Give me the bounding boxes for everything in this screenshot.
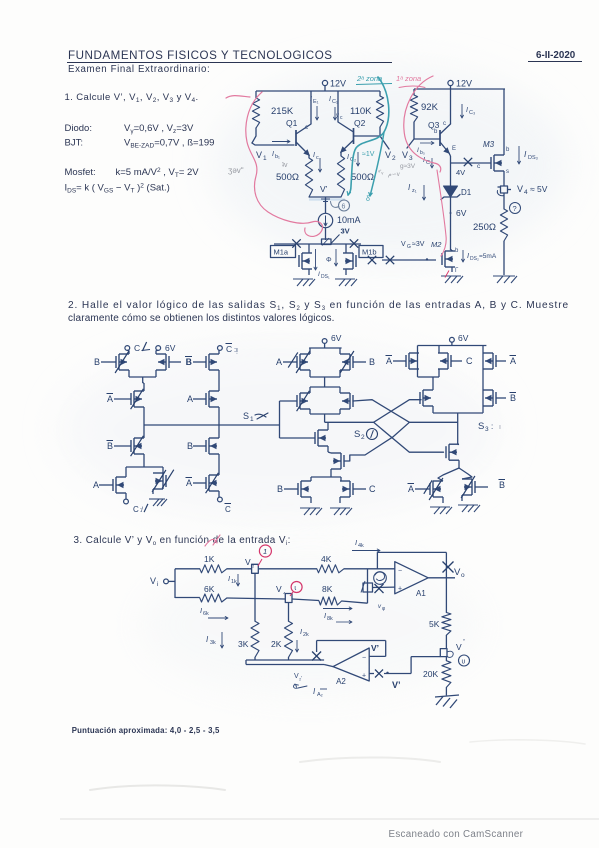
svg-text:M2: M2 [431, 240, 442, 249]
svg-text:B: B [369, 357, 375, 367]
svg-text:A2: A2 [336, 677, 346, 686]
svg-text:A: A [186, 478, 192, 488]
label S2 with circled mark [354, 429, 378, 442]
ground under M1a [293, 279, 315, 286]
svg-text:4K: 4K [321, 554, 332, 564]
wire 4K to A1 inverting input [344, 568, 395, 570]
svg-text:V: V [256, 150, 262, 160]
node and wire to M3 gate with X [451, 158, 492, 170]
slash annotation on pmos B [115, 351, 129, 373]
mosfet M1b symbol [343, 244, 356, 275]
pmos A gate1 right branch [187, 370, 219, 407]
svg-text:D1: D1 [461, 188, 472, 197]
current arrow I4k top [352, 538, 380, 552]
svg-text:δ: δ [366, 196, 370, 203]
svg-text:b₁: b₁ [275, 154, 280, 160]
faint scan wash circuit 1 [210, 65, 570, 265]
svg-text:claramente cómo se obtienen lo: claramente cómo se obtienen los distinto… [68, 313, 335, 324]
nmos Bbar gate1 below rail [107, 425, 145, 454]
X mark at bus right [312, 652, 321, 661]
svg-text:A: A [386, 356, 392, 366]
svg-text:6V: 6V [458, 333, 469, 343]
current label IC1 arrow and vc [329, 96, 343, 121]
svg-text:1: 1 [263, 547, 267, 556]
svg-text:FUNDAMENTOS FISICOS Y TECNOLOG: FUNDAMENTOS FISICOS Y TECNOLOGICOS [68, 49, 333, 62]
pmos S1-driven gate2 row2 left [280, 387, 341, 414]
pmos B gate2 top-right mirrored [340, 348, 375, 377]
svg-text:Φ: Φ [326, 257, 332, 264]
svg-text:I: I [466, 107, 468, 114]
mosfet box label M1a [271, 246, 296, 258]
slashes on nmos Abar gate3 [424, 478, 443, 500]
node V2 probe box [245, 557, 258, 576]
svg-text:V’: V’ [371, 643, 379, 653]
svg-text:3V: 3V [341, 227, 350, 236]
svg-text:Escaneado con CamScanner: Escaneado con CamScanner [389, 829, 524, 840]
slash on pmos B gate2 [340, 351, 354, 373]
svg-text:B: B [510, 393, 516, 403]
nmos B gate1 right branch [187, 425, 219, 454]
current arrow I6k [200, 606, 228, 620]
svg-text:8k: 8k [327, 616, 333, 622]
bottom rail of box gate3 [433, 412, 483, 414]
pink curve along D1 branch [437, 170, 446, 256]
wire 12V top rail right section [414, 88, 505, 90]
nmos A gate1 bottom-left [93, 471, 126, 499]
svg-text:5K: 5K [429, 619, 440, 629]
svg-text:E₁: E₁ [313, 99, 319, 105]
svg-text:c: c [316, 155, 319, 161]
svg-text:A: A [93, 480, 99, 490]
svg-text::: : [491, 422, 493, 431]
nmos C gate2 bottom-right mirrored [340, 481, 376, 503]
svg-text:b₃: b₃ [420, 150, 425, 156]
current label IC3b arrow down [423, 157, 434, 168]
label V-prime at node [456, 637, 465, 652]
pmos Abar gate1 series [107, 383, 145, 407]
S3 node vertical [457, 413, 459, 445]
wire 215K bottom to node V1 [252, 128, 256, 143]
wire Q3 collector to rail [443, 89, 451, 127]
nmos Abar gate3 bottom-left [408, 478, 444, 503]
svg-text:Q2: Q2 [354, 118, 366, 128]
wire V-prime node down to current source [325, 197, 327, 213]
supply terminal C (crossed) gate1 [125, 342, 150, 353]
svg-text:1K: 1K [204, 554, 215, 564]
bottom bus double line [246, 660, 324, 665]
svg-text:C: C [466, 356, 473, 366]
wire 250 ohm to ground [503, 241, 505, 275]
terminal Cbar bottom gate1 [218, 497, 232, 514]
svg-text:1: 1 [263, 155, 267, 162]
svg-text:4: 4 [524, 189, 528, 196]
transistor Q1 (npn) [286, 118, 311, 156]
faint scan wash circuit 3 [140, 555, 480, 695]
svg-text:3: 3 [409, 155, 413, 162]
svg-text:A1: A1 [416, 589, 426, 598]
svg-text:6V: 6V [165, 343, 176, 353]
terminal V2 [385, 150, 396, 162]
terminal C bottom gate1 [124, 499, 148, 514]
S1 output rail [144, 424, 280, 426]
wire 12V top rail left section [256, 90, 380, 92]
pmos S2-driven gate3 row2 [420, 377, 433, 413]
pen circled 6 annotation [331, 200, 350, 211]
svg-text:I: I [467, 251, 469, 260]
supply terminal 6V gate1 [156, 343, 176, 353]
svg-text:+: + [398, 586, 402, 593]
problem 3 statement [74, 535, 291, 547]
nmos S3-driven gate2 [328, 452, 344, 474]
wire Q1 collector to rail with label c [305, 91, 311, 131]
wire M3 drain to rail [503, 89, 505, 155]
svg-text:Puntuación aproximada: 4,0 - 2: Puntuación aproximada: 4,0 - 2,5 - 3,5 [72, 726, 220, 735]
terminal V3 [402, 150, 413, 162]
svg-text:2K: 2K [271, 639, 282, 649]
svg-text:10mA: 10mA [337, 215, 361, 225]
mosfet M3 symbol [483, 140, 510, 175]
resistor 6K horizontal [200, 584, 227, 602]
ground slashes under 20K [435, 695, 459, 708]
slash on nmos Abar right branch [206, 473, 219, 493]
svg-text:20K: 20K [423, 669, 438, 679]
pencil scribbles near V2 [378, 169, 400, 178]
wire Q2 base to 110K bottom and V2 [354, 127, 390, 149]
svg-text:6V: 6V [456, 208, 467, 218]
current arrow I2k [296, 627, 310, 652]
wire M2 drain join vertical [451, 250, 453, 251]
wire Q3 emitter down to node [449, 153, 451, 163]
wire pmos Abar to S1 rail [143, 407, 145, 425]
ground under M1b [335, 279, 357, 286]
wire plus tap to A1 [373, 584, 395, 593]
mosfet M1a symbol [299, 244, 312, 275]
footer score note [72, 726, 220, 735]
teal arrow to V-prime node [366, 132, 384, 203]
svg-text:500Ω: 500Ω [276, 172, 299, 183]
svg-text:ʇv: ʇv [282, 162, 288, 169]
svg-text:−: − [362, 655, 366, 662]
wire nmos Bbar to bottom pair [126, 454, 163, 473]
pmos C gate3 top-middle mirrored [433, 346, 473, 378]
svg-text:V: V [402, 150, 408, 160]
svg-text:A: A [510, 356, 516, 366]
wire crossing S2 to right nmos gate [374, 422, 444, 452]
svg-text:C: C [133, 505, 139, 514]
svg-text:B: B [277, 484, 283, 494]
svg-text:1k: 1k [231, 579, 237, 585]
current arrow I1k [228, 574, 240, 586]
circled question mark annotation [510, 203, 521, 214]
problem 1 statement [65, 92, 199, 104]
X mark left on mirror rail [292, 239, 300, 247]
svg-text:ʒəvʺ: ʒəvʺ [228, 166, 244, 175]
svg-text:V: V [150, 576, 156, 586]
crossed box at A1 plus junction [361, 581, 373, 593]
current source 10mA [318, 213, 360, 227]
pink curve left of circuit 1 [246, 92, 323, 236]
resistor 500 ohm right (Q2 emitter) [337, 152, 374, 197]
middle rail left segment [175, 597, 200, 599]
pencil scribble 3v left of V1 [228, 166, 244, 175]
input vertical wire [174, 569, 176, 598]
svg-text:2: 2 [392, 155, 396, 162]
wire A2 plus to V-prime node [369, 657, 440, 678]
top rail left segment [175, 568, 200, 570]
svg-text:B: B [186, 357, 192, 367]
label V4 = 5V [517, 184, 548, 196]
svg-text:≈ 5V: ≈ 5V [530, 184, 548, 194]
svg-text:s: s [506, 169, 509, 175]
header title FUNDAMENTOS FISICOS Y TECNOLOGICOS [67, 49, 392, 63]
svg-text:c: c [443, 121, 446, 127]
resistor 8K horizontal [319, 584, 342, 605]
wire joining pmos pair drains gate1 [129, 370, 156, 383]
supply terminal 6V gate2 [322, 333, 342, 348]
svg-text:’: ’ [463, 637, 465, 647]
current label IC2 arrow [347, 152, 360, 166]
svg-text:2. Halle el valor lógico de la: 2. Halle el valor lógico de las salidas … [68, 300, 569, 312]
red caret annotation over funcion [205, 535, 220, 546]
current label IDS2=5mA [462, 250, 497, 262]
mosfet data line [65, 167, 200, 179]
pink handwriting 1a zona [396, 74, 425, 88]
pmos A gate2 top-left [276, 348, 310, 377]
wire 5K to V-prime node [445, 635, 447, 648]
resistor 20K vertical [423, 661, 451, 688]
svg-text:IDS= k ( VGS − VT )2 (Sat.): IDS= k ( VGS − VT )2 (Sat.) [65, 183, 170, 195]
pmos Bbar gate3 row2 right mirrored [483, 390, 516, 406]
current label IE1 arrow [310, 96, 319, 120]
transistor Q2 (npn mirrored) [338, 118, 366, 153]
BJT data line [65, 138, 215, 150]
pmos row2 right gate2 mirrored (to crossing) [340, 387, 353, 414]
subtitle Examen Final Extraordinario [68, 64, 210, 75]
svg-text:I: I [272, 151, 274, 158]
wire joining row2 pair gate2 to node [310, 414, 340, 422]
supply terminal 12V left [322, 79, 346, 92]
wire 20K to ground [445, 687, 447, 695]
svg-text:6-II-2020: 6-II-2020 [536, 50, 576, 61]
mosfet box label M1b [359, 246, 383, 258]
svg-text:4V: 4V [456, 168, 465, 177]
svg-text:V: V [517, 184, 523, 194]
svg-text:i: i [157, 581, 158, 588]
pmos Abar gate3 top-left [386, 353, 420, 369]
label VG=3V and M2 [401, 240, 442, 250]
svg-text:B: B [187, 441, 193, 451]
wire crossing right-pmos-gate to S2 rail [374, 400, 421, 423]
slash on pmos A gate2 [288, 351, 310, 373]
resistor 250 ohm [473, 209, 508, 241]
slash on nmos Bbar gate1 [131, 436, 144, 456]
red circled 1 annotation [258, 545, 271, 566]
pink curve right circuit [404, 76, 441, 172]
resistor 3K vertical [238, 621, 259, 660]
svg-text:6V: 6V [331, 333, 342, 343]
svg-text:A: A [408, 484, 414, 494]
current label IC3 arrow [461, 104, 476, 118]
svg-text:C: C [369, 484, 376, 494]
wire V4 down to 2K [288, 605, 290, 621]
pmos Bbar gate1 top-right (mirrored) [156, 350, 192, 370]
svg-text:I: I [228, 574, 230, 583]
wire crossing TD-gate to S3 rail [353, 400, 457, 423]
svg-text:A: A [187, 394, 193, 404]
svg-text:≈1V: ≈1V [362, 151, 375, 158]
mosfet M2 symbol [442, 248, 459, 274]
svg-text:A₂: A₂ [317, 692, 323, 698]
ground hatched right gate3 [458, 505, 480, 512]
svg-text:B: B [499, 480, 505, 490]
bold V-prime label at A2 feedback [371, 643, 379, 653]
svg-text:Q1: Q1 [286, 118, 298, 128]
V-prime node probe box [440, 649, 453, 658]
pmos Bbar gate1 right branch [186, 350, 220, 370]
small label Vphi [378, 604, 386, 612]
wire 8K right end to plus-branch vertical [342, 569, 368, 603]
wire M2 source to ground [451, 267, 453, 272]
resistor 5K vertical [429, 613, 451, 636]
resistor 4K horizontal [317, 554, 344, 573]
svg-text:500Ω: 500Ω [351, 172, 374, 183]
current label Ic left [313, 152, 322, 172]
svg-text:BJT:: BJT: [65, 138, 83, 149]
svg-text:م∽v: م∽v [388, 172, 400, 178]
svg-text:+: + [362, 673, 366, 680]
svg-text:E: E [452, 146, 456, 152]
current arrow Ib3 [417, 142, 434, 157]
ground under M2 [441, 271, 463, 284]
svg-text:C: C [134, 343, 140, 353]
circled mark below V-prime [459, 655, 470, 666]
svg-text:M1a: M1a [274, 248, 289, 257]
nmos B gate2 bottom-left [277, 481, 311, 503]
faint page edge line [60, 818, 599, 820]
saturation equation line [65, 183, 170, 195]
svg-text:Diodo:: Diodo: [65, 123, 92, 134]
pencil note q=3V [400, 163, 416, 170]
wire left branch vertical from rail [255, 91, 257, 98]
svg-text:V: V [454, 567, 461, 578]
supply terminal 12V right [448, 79, 472, 90]
current label IA2 [313, 687, 327, 698]
svg-text:?: ? [513, 204, 517, 213]
svg-text:₂’: ₂’ [299, 676, 302, 682]
wire V-prime node to 20K [445, 657, 447, 661]
svg-text:C: C [225, 505, 231, 514]
current arrow I3k [206, 632, 224, 648]
wire Q2 collector to rail [337, 91, 339, 122]
svg-text:B: B [107, 441, 113, 451]
label S3 : 1 [478, 421, 501, 433]
svg-text:I: I [355, 538, 357, 547]
ground hatched right gate2 [330, 508, 352, 515]
supply terminal 6V gate3 [450, 333, 469, 346]
nmos crossed-out gate1 bottom-right (mirrored) [152, 470, 174, 492]
resistor 2K vertical [271, 621, 293, 660]
wire A2 output to bus [324, 665, 333, 667]
faint scan wash circuit 2 [60, 340, 500, 520]
wire 6K to node V4 [227, 598, 285, 599]
svg-text:3: 3 [485, 426, 489, 433]
wire V2 down to 3K [254, 576, 256, 621]
svg-text:8K: 8K [322, 584, 333, 594]
teal annotation 1V near Q2 emitter [362, 151, 375, 158]
svg-text:ɡ≈3V: ɡ≈3V [400, 163, 416, 170]
wire node V4 to 8K [292, 599, 319, 601]
svg-text:M1b: M1b [362, 248, 377, 257]
svg-text:DS₃: DS₃ [528, 155, 538, 161]
transistor Q3 (npn) [428, 120, 456, 154]
svg-text:V: V [401, 241, 406, 248]
svg-text:3. Calcule V’ y Vo en función: 3. Calcule V’ y Vo en función de la entr… [74, 535, 291, 547]
CamScanner watermark [389, 829, 524, 840]
svg-text:S: S [243, 411, 249, 421]
op-amp A1 [395, 562, 428, 598]
svg-text:I: I [300, 627, 302, 636]
resistor 92K [410, 95, 438, 122]
svg-text:I: I [347, 154, 349, 161]
svg-text:4k: 4k [358, 543, 364, 549]
label V-prime handwritten at A2 plus [392, 680, 401, 690]
X mark right on mirror rail [350, 239, 358, 247]
box wire top pair gate2 [310, 347, 342, 349]
S1 input riser gate2 [279, 401, 281, 438]
circled scribble Vphi [374, 572, 387, 585]
faint blue scan streak at V-prime rail [309, 198, 345, 200]
wire rail left corner down to 92K [413, 89, 415, 95]
svg-text:2k: 2k [303, 632, 309, 638]
svg-text:≈3V: ≈3V [412, 241, 425, 248]
wire current source to mirror rail with node squiggle [322, 228, 332, 246]
nmos Abar gate1 right branch [186, 454, 220, 497]
svg-text:I: I [324, 611, 326, 620]
ground hatched left gate2 [300, 508, 322, 515]
faint scanner streaks [90, 740, 585, 790]
svg-text:S: S [354, 429, 360, 440]
wire S1 rail to riser [0, 0, 1, 1]
svg-text:S: S [478, 421, 484, 432]
handwritten V2-prime and arrow under bus [294, 673, 307, 688]
svg-text:V: V [276, 584, 282, 594]
svg-text:3k: 3k [210, 640, 216, 646]
pmos Abar gate3 top-right mirrored [483, 353, 516, 369]
resistor 215K [252, 98, 293, 128]
svg-text:12V: 12V [456, 79, 472, 89]
red circled mark near V4 [290, 582, 302, 597]
svg-text:Mosfet:: Mosfet: [65, 167, 96, 178]
current arrows between M1a M1b with IDS1 label [314, 249, 338, 280]
S2 node rail [325, 421, 374, 423]
svg-text:V’: V’ [392, 680, 401, 690]
wire 1K to node V2 [227, 568, 252, 570]
svg-text:215K: 215K [271, 106, 294, 117]
pink stroke near title 1 [226, 96, 250, 98]
wire A2 minus input to feedback [369, 655, 386, 657]
svg-text:V: V [456, 642, 462, 652]
pen note 6V below D1 [456, 208, 467, 218]
svg-text:6k: 6k [203, 611, 209, 617]
zener V4 probe box on M3 source [497, 171, 511, 209]
svg-text:DS₂: DS₂ [470, 256, 479, 262]
wire 12V rail right of Q1 to 110K [379, 91, 381, 96]
resistor 110K [350, 96, 384, 127]
wire nmos2 to bottom pair gate2 [311, 474, 341, 481]
wire Vo down to 5K [445, 567, 447, 613]
nmos S1-driven gate2 [280, 422, 329, 452]
wire node V2 to 4K [258, 568, 317, 570]
